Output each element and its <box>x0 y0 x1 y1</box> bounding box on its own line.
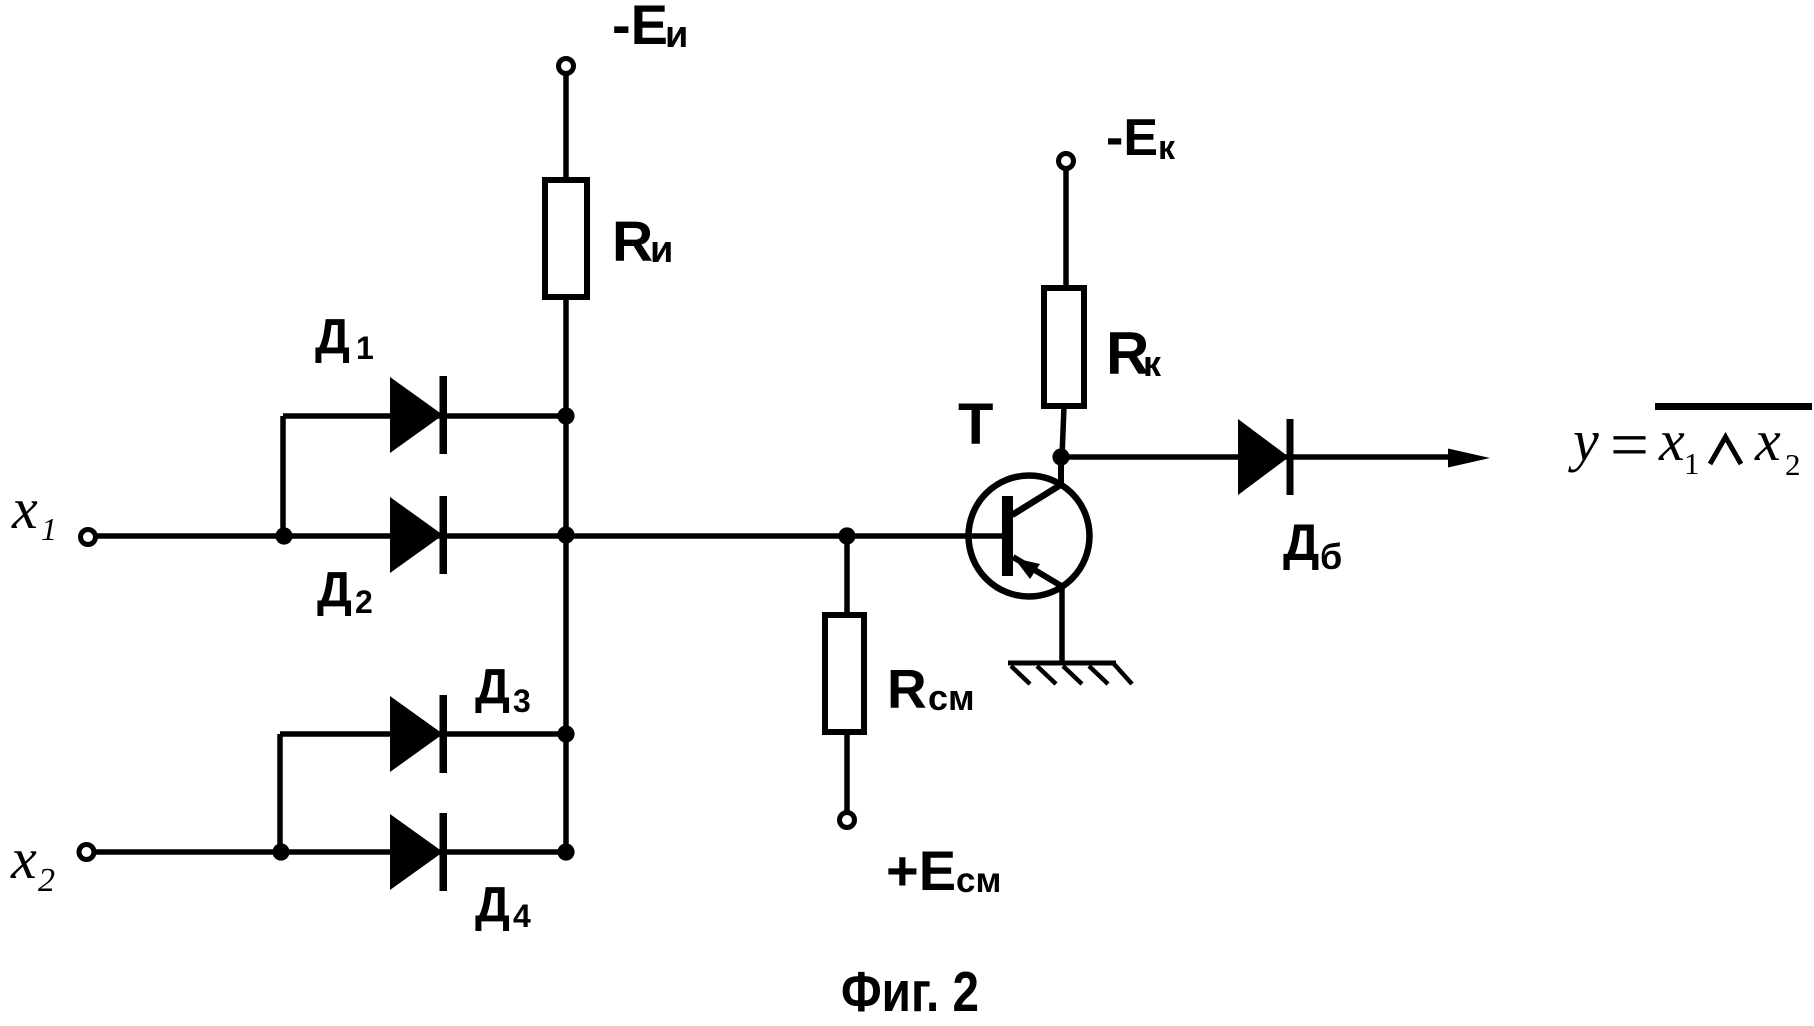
svg-text:и: и <box>650 229 673 271</box>
svg-text:R: R <box>612 210 653 274</box>
svg-text:x: x <box>11 476 38 541</box>
svg-text:2: 2 <box>38 862 55 899</box>
svg-text:+E: +E <box>886 839 956 902</box>
svg-text:T: T <box>958 392 993 457</box>
svg-text:2: 2 <box>355 584 373 620</box>
svg-text:см: см <box>956 861 1001 900</box>
svg-text:к: к <box>1158 129 1176 167</box>
svg-text:и: и <box>665 14 688 56</box>
svg-text:Д: Д <box>315 310 350 364</box>
svg-text:x: x <box>10 826 37 891</box>
svg-text:см: см <box>928 677 975 718</box>
svg-text:к: к <box>1143 343 1162 384</box>
svg-text:Д: Д <box>1283 514 1319 571</box>
svg-text:3: 3 <box>513 683 531 719</box>
svg-text:1: 1 <box>41 511 57 547</box>
svg-text:y: y <box>1568 408 1599 473</box>
svg-text:x: x <box>1754 408 1781 473</box>
svg-text:б: б <box>1320 536 1342 577</box>
svg-text:Д: Д <box>317 563 352 617</box>
svg-text:R: R <box>887 658 927 720</box>
svg-text:4: 4 <box>513 898 531 934</box>
svg-text:Фиг. 2: Фиг. 2 <box>841 960 979 1024</box>
svg-text:x: x <box>1658 408 1685 473</box>
svg-text:2: 2 <box>1785 447 1801 482</box>
svg-text:=: = <box>1610 407 1649 483</box>
svg-text:-E: -E <box>612 0 668 56</box>
svg-text:Д: Д <box>475 660 510 714</box>
svg-text:1: 1 <box>1684 446 1700 481</box>
svg-text:1: 1 <box>356 330 374 366</box>
svg-text:Д: Д <box>475 878 510 932</box>
svg-text:-E: -E <box>1106 109 1158 167</box>
